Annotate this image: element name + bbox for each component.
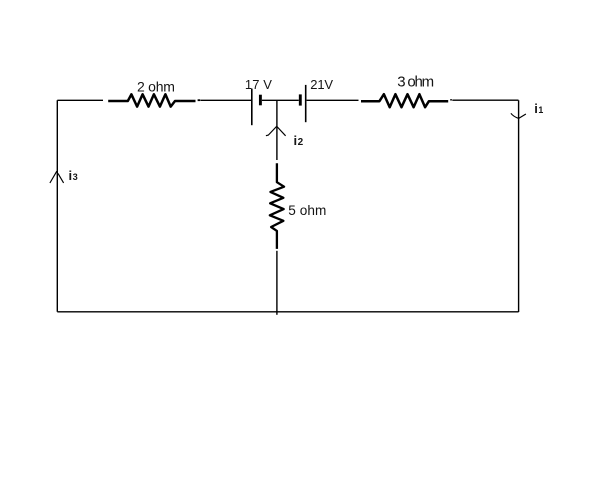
battery 21V long plate	[305, 85, 307, 122]
resistor 2 ohm	[108, 94, 195, 106]
wire between 21V battery and 3 ohm resistor	[307, 99, 359, 101]
current arrow i3	[50, 171, 64, 183]
battery 17 V short plate	[259, 95, 262, 106]
battery 17 V long plate	[251, 89, 253, 126]
wire between 2 ohm and 17 V battery	[201, 99, 252, 101]
wire dot after 2 ohm resistor	[198, 99, 201, 101]
wire left side vertical	[56, 100, 58, 311]
wire middle branch upper	[276, 100, 278, 160]
wire between 17 V battery and 21V battery	[262, 99, 299, 101]
wire right side vertical	[518, 100, 520, 312]
wire dot after 3 ohm resistor	[450, 99, 452, 101]
svg-text:2 ohm: 2 ohm	[137, 78, 175, 94]
battery 21V short plate	[299, 94, 302, 105]
wire top-left segment	[57, 99, 103, 101]
svg-text:5 ohm: 5 ohm	[288, 203, 326, 218]
wire bottom	[57, 311, 518, 313]
wire from 3 ohm to top-right corner	[452, 99, 518, 101]
current arrow i1	[511, 113, 526, 118]
svg-text:21V: 21V	[310, 77, 333, 92]
svg-text:3 ohm: 3 ohm	[397, 74, 434, 91]
resistor 5 ohm	[270, 163, 284, 249]
wire middle branch lower	[276, 251, 278, 315]
current arrow i2	[266, 126, 286, 136]
resistor 3 ohm	[361, 94, 448, 107]
svg-text:17 V: 17 V	[245, 77, 272, 92]
